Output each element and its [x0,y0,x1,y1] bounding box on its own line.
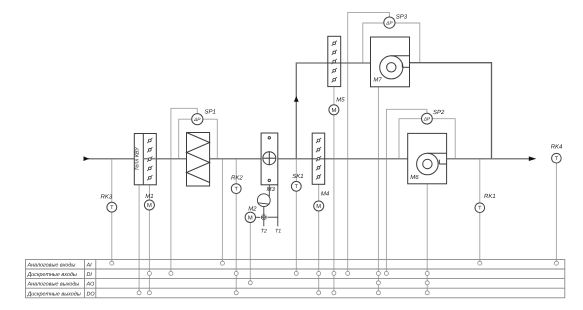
svg-text:Тепл КВУ: Тепл КВУ [135,147,141,171]
svg-text:M5: M5 [336,97,345,104]
svg-text:Т1: Т1 [275,228,281,234]
svg-text:Аналоговые входы: Аналоговые входы [27,263,76,269]
svg-text:DI: DI [87,272,93,278]
svg-text:Аналоговые выходы: Аналоговые выходы [27,282,80,288]
svg-text:Т2: Т2 [261,228,267,234]
svg-text:M1: M1 [145,193,153,200]
svg-text:SP2: SP2 [433,109,445,116]
svg-text:SK1: SK1 [292,173,303,180]
svg-text:AI: AI [86,263,93,269]
svg-text:Дискретные входы: Дискретные входы [27,272,77,278]
svg-text:ΔP: ΔP [423,116,431,122]
svg-text:ΔP: ΔP [385,20,393,26]
svg-text:RK4: RK4 [551,144,563,151]
svg-text:Дискретные выходы: Дискретные выходы [27,291,81,297]
svg-text:AO: AO [86,282,96,288]
svg-text:RK3: RK3 [101,194,113,201]
svg-text:DO: DO [87,291,96,297]
svg-text:ΔP: ΔP [193,117,201,123]
svg-text:M6: M6 [410,174,419,181]
svg-text:SP1: SP1 [205,108,216,115]
svg-text:M7: M7 [373,76,382,83]
svg-text:M: M [316,204,321,210]
svg-text:M: M [248,215,253,221]
svg-text:RK2: RK2 [231,175,243,182]
svg-text:M: M [331,108,336,114]
svg-text:M4: M4 [321,190,330,197]
svg-text:RK1: RK1 [484,193,496,200]
svg-text:M: M [147,203,152,209]
svg-text:M3: M3 [267,186,276,193]
svg-text:SP3: SP3 [396,14,408,21]
svg-text:M2: M2 [248,205,257,212]
